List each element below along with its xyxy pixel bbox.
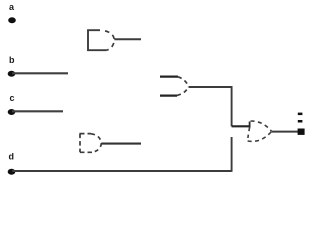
svg-text:d: d [9,152,15,162]
or-gate G4 solid left notch [249,122,251,128]
or-gate G4 dashed lower arc [248,131,272,141]
svg-text:b: b [9,55,15,65]
wire from G2 output [189,86,233,88]
or-gate G2 dashed lower arc [177,87,189,95]
dashed and-gate G3 bottom edge [80,151,93,153]
or-gate G2 bottom input stub [160,94,177,96]
wire from G1 output [114,38,141,40]
or-gate G4 dashed back edge [248,128,250,141]
wire from G3 output [101,143,141,145]
dashed and-gate G3 left edge [79,134,81,153]
node d terminal dot [8,169,16,175]
or-gate G2 top input stub [160,75,178,77]
or-gate G2 dashed upper arc [178,77,189,87]
node a terminal dot [8,17,16,23]
output terminal square [298,129,305,135]
wire from d along bottom [12,170,232,172]
wire vertical up to final gate [231,137,233,172]
and-gate G1 dashed arc [101,30,114,50]
and-gate G1 body (back and sides) [88,30,107,50]
dashed and-gate G3 top edge [80,133,92,135]
svg-text:c: c [10,93,15,103]
dashed and-gate G3 arc [91,134,101,152]
wire into final gate top input [232,125,250,127]
wire from b [12,72,68,74]
node b terminal dot [8,71,16,77]
wire from c [12,110,63,112]
output label F lower dash [298,120,303,123]
or-gate G4 dashed upper arc [251,121,272,131]
node c terminal dot [8,109,16,115]
wire from G4 output [272,131,298,133]
output label F upper dash [298,113,303,116]
wire down from G2 [231,87,233,126]
